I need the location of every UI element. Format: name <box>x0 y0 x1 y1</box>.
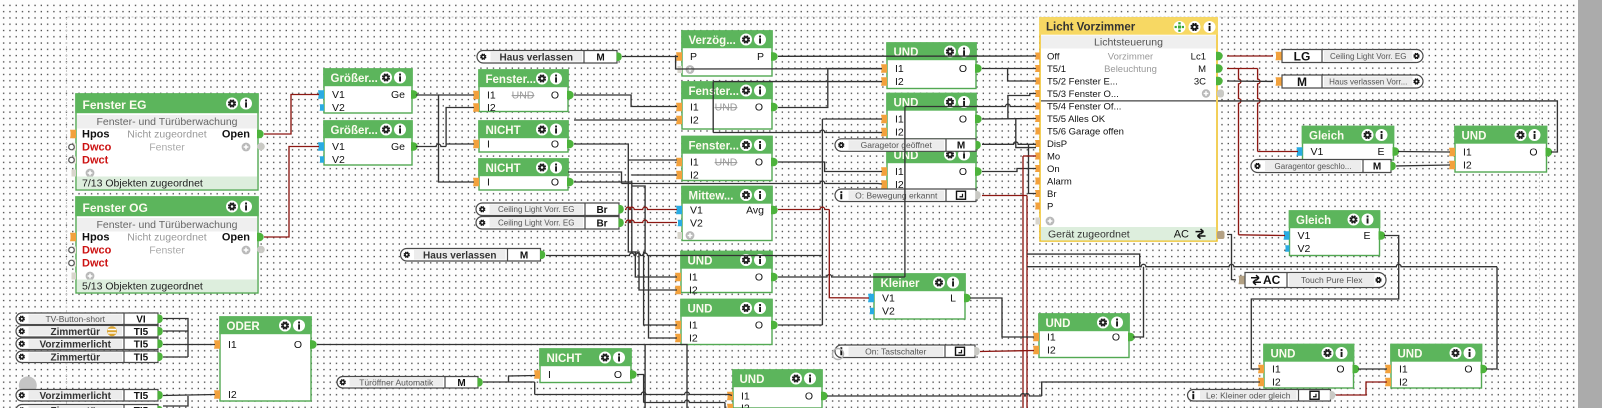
wire red Lc1 to LG pill <box>1227 55 1273 57</box>
svg-text:V2: V2 <box>690 218 703 230</box>
wire y254 to elbow <box>1027 254 1140 267</box>
svg-text:Nicht zugeordnet: Nicht zugeordnet <box>127 232 206 244</box>
pill LG Ceiling Light Vorr. EG <box>1276 49 1424 63</box>
pill Ceiling Light Vorr. EG Br 2 <box>476 217 624 230</box>
svg-text:Haus verlassen Vorr...: Haus verlassen Vorr... <box>1329 77 1407 86</box>
block UND top right <box>1449 126 1552 172</box>
gray node circle <box>19 376 37 394</box>
block UND bottom right 1 <box>1258 344 1359 389</box>
wire ODER O long <box>317 345 687 408</box>
svg-text:E: E <box>1377 146 1384 158</box>
svg-text:UND: UND <box>1398 349 1423 361</box>
block UND right 2 <box>881 93 982 139</box>
pill Ceiling Light Vorr. EG Br 1 <box>476 203 624 216</box>
svg-text:T5/2 Fenster E...: T5/2 Fenster E... <box>1047 77 1118 88</box>
pill Haus verlassen M 2 <box>401 249 546 262</box>
wire long line to T5/4 <box>905 104 1036 106</box>
wire UND-bm O to UND-br1 I2 <box>827 382 1260 396</box>
svg-text:Gleich: Gleich <box>1296 215 1331 227</box>
wire Garagetor pill to DisP <box>982 142 1036 144</box>
wire UND-r3 O to On <box>982 169 1036 172</box>
svg-text:I2: I2 <box>487 102 496 114</box>
svg-text:Dwct: Dwct <box>82 155 109 167</box>
wire UND-cr O up v1143 <box>1133 267 1144 337</box>
svg-text:NICHT: NICHT <box>486 125 521 137</box>
svg-text:O: O <box>551 139 559 151</box>
svg-text:UND: UND <box>894 47 919 59</box>
licht vorzimmer wires crossing marker <box>0 0 1 1</box>
block Groesser 2 <box>318 120 418 166</box>
svg-text:I2: I2 <box>690 170 699 182</box>
svg-text:UND: UND <box>1271 349 1296 361</box>
svg-text:On: Tastschalter: On: Tastschalter <box>865 346 926 356</box>
pill Vorzimmerlicht TI5 b <box>16 390 163 402</box>
svg-text:I2: I2 <box>1047 345 1056 357</box>
svg-text:I1: I1 <box>487 90 496 102</box>
svg-text:M: M <box>520 250 528 261</box>
wire Verzoeg P to Licht Off <box>778 55 1036 57</box>
svg-text:O: O <box>1336 364 1344 376</box>
wire Groesser1 Ge to F-left I1 and NICHT2 I <box>416 95 474 182</box>
svg-text:Dwct: Dwct <box>82 258 109 270</box>
wire red Ceiling1 to Mittew V1 <box>625 207 677 209</box>
pill AC Touch Pure Flex <box>1239 273 1387 288</box>
svg-text:UND: UND <box>688 256 713 268</box>
block NICHT 3 <box>534 348 637 382</box>
svg-text:V1: V1 <box>332 89 345 101</box>
svg-text:I: I <box>487 177 490 189</box>
wire v1497 down <box>1486 267 1497 369</box>
block Gleich 2 <box>1284 210 1386 255</box>
pill Zimmertür TI5 c (cut) <box>16 405 163 408</box>
svg-text:O: O <box>551 90 559 102</box>
block UND right 1 <box>881 42 982 88</box>
svg-text:V1: V1 <box>332 141 345 153</box>
block UND right 3 <box>881 145 982 191</box>
svg-text:Br: Br <box>596 218 607 229</box>
wire red Mittew Avg to Kleiner V1 <box>778 207 869 298</box>
svg-text:I1: I1 <box>1463 147 1472 159</box>
svg-text:UND: UND <box>512 90 535 102</box>
svg-text:P: P <box>757 51 764 63</box>
svg-text:Hpos: Hpos <box>82 232 110 244</box>
svg-text:Beleuchtung: Beleuchtung <box>1104 64 1157 75</box>
svg-text:Gerät zugeordnet: Gerät zugeordnet <box>1048 228 1130 240</box>
svg-text:I: I <box>548 369 551 381</box>
svg-text:Ceiling Light Vorr. EG: Ceiling Light Vorr. EG <box>498 219 574 228</box>
svg-text:Ceiling Light Vorr. EG: Ceiling Light Vorr. EG <box>1330 52 1406 61</box>
right gray strip <box>1578 0 1602 408</box>
svg-text:Ceiling Light Vorr. EG: Ceiling Light Vorr. EG <box>498 205 574 214</box>
svg-text:Vorzimmer: Vorzimmer <box>1108 52 1153 63</box>
svg-text:Off: Off <box>1047 52 1060 63</box>
svg-text:O: O <box>551 177 559 189</box>
pill M Haus verlassen Vorr... <box>1276 75 1424 89</box>
wire NICHT3 O to UND-bm I2 <box>637 375 725 408</box>
svg-text:I2: I2 <box>1272 377 1281 389</box>
svg-text:UND: UND <box>894 98 919 110</box>
svg-text:LG: LG <box>1294 49 1311 63</box>
svg-text:Vorzimmerlicht: Vorzimmerlicht <box>40 339 112 350</box>
svg-text:O: Bewegung erkannt: O: Bewegung erkannt <box>855 190 938 200</box>
svg-text:Zimmertür: Zimmertür <box>51 352 101 363</box>
pill Zimmertür TI5 a <box>16 326 163 338</box>
svg-text:Fenster OG: Fenster OG <box>83 201 148 215</box>
block Fenster... middle 2 <box>676 136 778 182</box>
svg-text:TI5: TI5 <box>134 339 149 350</box>
wire Haus verlassen to Verzoeg P and UND-r1 I1 <box>622 57 882 70</box>
svg-text:AC: AC <box>1263 273 1281 287</box>
wire y266 long <box>1027 264 1497 266</box>
svg-text:E: E <box>1363 230 1370 242</box>
svg-text:Lc1: Lc1 <box>1191 52 1206 63</box>
svg-text:I2: I2 <box>689 333 698 345</box>
svg-text:Garagetor geöffnet: Garagetor geöffnet <box>861 140 933 150</box>
svg-text:Open: Open <box>222 232 250 244</box>
pill Garagentor geschlo... M <box>1251 160 1396 173</box>
svg-text:Alarm: Alarm <box>1047 177 1072 188</box>
svg-text:TI5: TI5 <box>134 352 149 363</box>
pill O: Bewegung erkannt <box>835 189 981 202</box>
svg-text:M: M <box>596 52 604 63</box>
svg-text:Garagentor geschlo...: Garagentor geschlo... <box>1275 162 1352 171</box>
svg-text:I1: I1 <box>1399 364 1408 376</box>
svg-text:T5/4 Fenster Of...: T5/4 Fenster Of... <box>1047 102 1121 113</box>
svg-text:Verzög...: Verzög... <box>689 35 736 47</box>
svg-text:I2: I2 <box>690 115 699 127</box>
block Mittewert <box>676 186 778 241</box>
svg-text:VI: VI <box>136 314 146 325</box>
svg-text:Größer...: Größer... <box>331 125 378 137</box>
wire UND-r2 O fanout <box>982 94 1036 148</box>
block Kleiner <box>868 273 971 319</box>
svg-text:UND: UND <box>715 157 738 169</box>
svg-text:I2: I2 <box>741 403 750 408</box>
wire bundle net NICHT2 O to F_m2 I2 / UND-m1 I2 / UND-m2 I1 <box>574 175 677 325</box>
wire red Ceiling2 to Mittew V2 <box>625 220 677 222</box>
svg-text:I1: I1 <box>1047 332 1056 344</box>
svg-text:I2: I2 <box>1463 160 1472 172</box>
svg-text:NICHT: NICHT <box>547 353 582 365</box>
wire red Mo vertical <box>982 156 1036 408</box>
svg-text:I1: I1 <box>741 391 750 403</box>
svg-text:P: P <box>690 51 697 63</box>
pill On: Tastschalter <box>835 345 980 358</box>
block UND bottom right 2 <box>1385 344 1487 389</box>
wire 3C to M pill <box>1227 80 1273 83</box>
svg-text:UND: UND <box>740 374 765 386</box>
svg-text:Haus verlassen: Haus verlassen <box>500 52 573 63</box>
svg-text:Licht Vorzimmer: Licht Vorzimmer <box>1046 22 1136 34</box>
block Licht Vorzimmer (device) <box>1035 17 1225 241</box>
svg-text:Vorzimmerlicht: Vorzimmerlicht <box>40 391 112 402</box>
svg-text:Fenster...: Fenster... <box>689 141 740 153</box>
svg-text:UND: UND <box>1462 131 1487 143</box>
svg-text:O: O <box>1112 332 1120 344</box>
wire Le pill to UND-br2 I2 <box>1336 382 1387 395</box>
svg-text:Kleiner: Kleiner <box>881 278 921 290</box>
block Fenster... (UND) left <box>473 69 574 114</box>
svg-text:I1: I1 <box>228 339 237 351</box>
svg-text:Dwco: Dwco <box>82 142 112 154</box>
svg-text:Zimmertür: Zimmertür <box>51 327 101 338</box>
svg-text:UND: UND <box>1046 318 1071 330</box>
svg-text:I1: I1 <box>689 272 698 284</box>
wire Groesser2 Ge to NICHT1 I and F-left I2 <box>416 108 474 147</box>
svg-text:Dwco: Dwco <box>82 245 112 257</box>
svg-text:M: M <box>457 378 465 389</box>
svg-text:Fenster EG: Fenster EG <box>83 98 147 112</box>
svg-text:TI5: TI5 <box>134 327 149 338</box>
block NICHT 2 <box>473 158 574 190</box>
block UND middle 1 <box>675 251 778 297</box>
wire Gleich2 E to UND-br1 I1 <box>1251 236 1398 370</box>
svg-text:M: M <box>1297 75 1307 89</box>
svg-text:O: O <box>755 157 763 169</box>
svg-text:Lichtsteuerung: Lichtsteuerung <box>1094 37 1163 49</box>
block Verzoeg... <box>676 30 778 76</box>
svg-text:UND: UND <box>688 304 713 316</box>
svg-text:Türöffner Automatik: Türöffner Automatik <box>359 377 434 387</box>
wire UND-r1 O to T5/1 and T5/2 <box>982 69 1036 82</box>
pill Zimmertür TI5 b <box>16 351 163 363</box>
svg-text:M: M <box>1198 64 1206 75</box>
svg-text:V1: V1 <box>1298 230 1311 242</box>
svg-text:Touch Pure Flex: Touch Pure Flex <box>1301 275 1363 285</box>
wire long y101 to UND-tr O <box>1218 101 1557 152</box>
wire Haus verlassen 2 long <box>546 253 822 338</box>
svg-text:Ge: Ge <box>391 89 405 101</box>
wire long line to UND-r3 I2 <box>568 172 882 184</box>
pill Le: Kleiner oder gleich <box>1188 390 1336 402</box>
svg-text:P: P <box>1047 202 1053 213</box>
svg-text:Fenster- und Türüberwachung: Fenster- und Türüberwachung <box>96 219 237 231</box>
svg-text:Le: Kleiner oder gleich: Le: Kleiner oder gleich <box>1206 390 1291 400</box>
svg-text:O: O <box>755 102 763 114</box>
svg-text:O: O <box>1529 147 1537 159</box>
svg-text:I: I <box>487 139 490 151</box>
svg-text:T5/1: T5/1 <box>1047 64 1066 75</box>
svg-text:O: O <box>294 339 302 351</box>
svg-text:Ge: Ge <box>391 141 405 153</box>
svg-text:M: M <box>1373 162 1381 173</box>
wire Tueroeffner net <box>483 376 732 396</box>
svg-text:UND: UND <box>715 102 738 114</box>
wire Gleich1 E to UND-tr I1 <box>1398 151 1450 154</box>
svg-text:O: O <box>959 114 967 126</box>
svg-text:TV-Button-short: TV-Button-short <box>45 314 105 324</box>
pill Vorzimmerlicht TI5 a <box>16 338 163 350</box>
block Fenster EG <box>69 93 265 190</box>
svg-text:Fenster: Fenster <box>149 245 185 257</box>
svg-text:V2: V2 <box>332 154 345 166</box>
wire Br feed <box>1029 144 1037 193</box>
wire Tastschalter pill to UND-cr I2 <box>980 351 1034 352</box>
svg-text:Größer...: Größer... <box>331 73 378 85</box>
wire AC to Touch Pure Flex <box>1227 235 1236 281</box>
svg-text:I2: I2 <box>689 285 698 297</box>
svg-text:T5/6 Garage offen: T5/6 Garage offen <box>1047 127 1124 138</box>
svg-text:Open: Open <box>222 129 250 141</box>
svg-text:I1: I1 <box>1272 364 1281 376</box>
wire UND-br1 O to UND-br2 I1 <box>1358 368 1387 370</box>
svg-text:I2: I2 <box>895 76 904 88</box>
svg-text:Haus verlassen: Haus verlassen <box>423 250 496 261</box>
svg-text:O: O <box>1464 364 1472 376</box>
svg-text:O: O <box>959 63 967 75</box>
svg-text:7/13 Objekten zugeordnet: 7/13 Objekten zugeordnet <box>82 178 203 190</box>
wire Fenster-m2 O to UND-r3 I1 <box>778 162 882 172</box>
pill TV-Button-short VI <box>16 313 163 325</box>
svg-text:Avg: Avg <box>746 205 764 217</box>
svg-text:AC: AC <box>1174 229 1189 241</box>
svg-text:O: O <box>755 320 763 332</box>
block Groesser 1 <box>318 68 418 114</box>
svg-text:Mittew...: Mittew... <box>689 191 734 203</box>
svg-text:Nicht zugeordnet: Nicht zugeordnet <box>127 129 206 141</box>
wire Kleiner L to UND-cr I1 <box>970 298 1034 337</box>
wire vertical 822 channel <box>778 119 882 325</box>
svg-text:I1: I1 <box>895 63 904 75</box>
gray ring node <box>833 349 844 360</box>
block UND middle 2 <box>675 299 778 345</box>
svg-text:ODER: ODER <box>227 321 261 333</box>
svg-text:Gleich: Gleich <box>1309 131 1344 143</box>
svg-text:NICHT: NICHT <box>486 163 521 175</box>
svg-text:TI5: TI5 <box>134 391 149 402</box>
svg-text:O: O <box>614 369 622 381</box>
svg-text:O: O <box>805 391 813 403</box>
svg-text:V1: V1 <box>690 205 703 217</box>
svg-text:V1: V1 <box>1311 146 1324 158</box>
svg-text:O: O <box>959 166 967 178</box>
wire bundle net NICHT1 O to F_m2 I1 / UND-m1 I1 <box>574 144 677 277</box>
block Fenster OG <box>69 196 265 293</box>
svg-text:3C: 3C <box>1194 77 1206 88</box>
svg-text:I1: I1 <box>895 114 904 126</box>
svg-text:V2: V2 <box>332 102 345 114</box>
block Gleich 1 <box>1297 126 1400 160</box>
svg-text:DisP: DisP <box>1047 139 1067 150</box>
wire bundle net F_l1 O to F_m1 I1 <box>574 95 677 107</box>
wire Garagentor pill to UND-tr I2 <box>1396 165 1450 166</box>
svg-text:V2: V2 <box>1298 243 1311 255</box>
svg-text:M: M <box>957 141 965 152</box>
svg-text:I2: I2 <box>895 127 904 139</box>
wire red M out split <box>1227 69 1298 236</box>
svg-text:I1: I1 <box>690 102 699 114</box>
svg-text:Hpos: Hpos <box>82 129 110 141</box>
svg-text:Fenster- und Türüberwachung: Fenster- und Türüberwachung <box>96 116 237 128</box>
svg-text:On: On <box>1047 164 1060 175</box>
svg-text:T5/5 Alles OK: T5/5 Alles OK <box>1047 114 1106 125</box>
pill Haus verlassen M (top) <box>477 51 622 64</box>
svg-text:Br: Br <box>596 205 607 216</box>
svg-text:V1: V1 <box>882 293 895 305</box>
svg-text:Br: Br <box>1047 189 1057 200</box>
svg-text:I1: I1 <box>895 166 904 178</box>
svg-text:Mo: Mo <box>1047 152 1060 163</box>
svg-text:5/13 Objekten zugeordnet: 5/13 Objekten zugeordnet <box>82 281 203 293</box>
svg-text:I1: I1 <box>689 320 698 332</box>
block ODER <box>214 316 317 401</box>
wire corner net to UND-r1 I2 and UND-r2 I2 <box>713 82 882 133</box>
block NICHT 1 <box>473 120 574 152</box>
block UND bottom middle <box>727 369 828 408</box>
wire net F_m1 I2 straight feed <box>574 119 677 121</box>
wire pills to ODER I2 <box>163 395 215 407</box>
svg-text:Fenster: Fenster <box>149 142 185 154</box>
block UND center right <box>1033 313 1135 357</box>
svg-text:I2: I2 <box>1399 377 1408 389</box>
wire pills bus to ODER I1 <box>163 319 215 358</box>
pill Garagetor geöffnet M <box>835 139 981 152</box>
wire Fenster-m1 O to UND-r1 I1 <box>778 69 882 108</box>
wire Fenster EG Open to Groesser1 V1 <box>264 95 319 135</box>
svg-text:I1: I1 <box>690 157 699 169</box>
svg-text:I2: I2 <box>228 389 237 401</box>
svg-text:O: O <box>755 272 763 284</box>
svg-text:Fenster...: Fenster... <box>486 74 537 86</box>
svg-text:T5/3 Fenster O...: T5/3 Fenster O... <box>1047 89 1119 100</box>
wire UND-m1 O via v905 <box>778 107 905 278</box>
wire Fenster OG Open to Groesser2 V1 <box>264 147 319 238</box>
block Fenster... middle 1 <box>676 81 778 129</box>
svg-text:L: L <box>950 293 956 305</box>
pill Türöffner Automatik M <box>337 377 483 389</box>
svg-text:V2: V2 <box>882 306 895 318</box>
